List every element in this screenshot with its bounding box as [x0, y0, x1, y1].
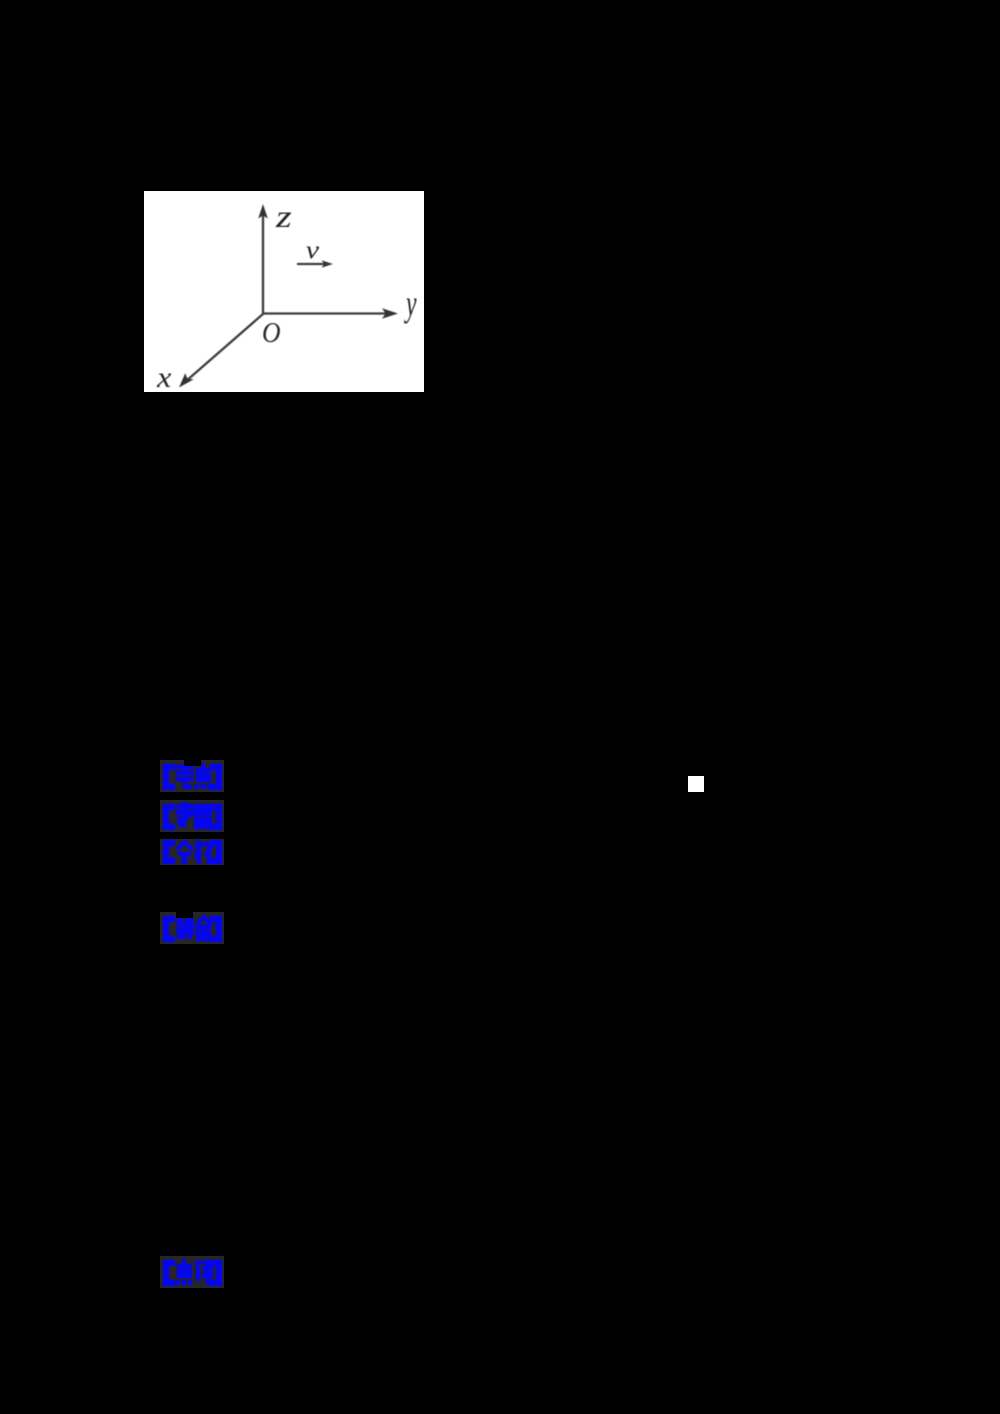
y axis line	[263, 312, 386, 314]
svg-text:x: x	[156, 360, 172, 392]
char dian	[195, 763, 210, 788]
x axis line	[185, 314, 263, 382]
figure: 3D coordinate axes diagram	[144, 191, 424, 392]
white square bullet	[688, 776, 704, 792]
char fen	[176, 840, 193, 863]
svg-text:z: z	[275, 199, 292, 234]
v vector line	[297, 263, 325, 265]
left bracket	[163, 764, 174, 789]
char da	[195, 915, 212, 940]
left bracket	[163, 804, 174, 829]
char zhuan	[176, 802, 193, 826]
label [jieda]	[160, 912, 224, 944]
x arrowhead	[179, 373, 194, 387]
z axis line	[262, 215, 264, 314]
right bracket	[210, 804, 221, 829]
left bracket	[163, 840, 174, 863]
right bracket	[210, 840, 221, 863]
char dian2	[176, 1259, 191, 1284]
char ping	[195, 1260, 212, 1284]
char ti	[194, 804, 211, 828]
svg-text:y: y	[404, 282, 417, 324]
char xi	[194, 840, 212, 863]
left bracket	[163, 1260, 174, 1285]
right bracket	[210, 764, 221, 789]
label [zhuanti]	[160, 800, 224, 832]
char kao	[176, 763, 193, 788]
y arrowhead	[382, 308, 398, 318]
right bracket	[210, 1260, 221, 1285]
svg-text:v: v	[306, 236, 320, 264]
left bracket	[163, 916, 174, 941]
char jie	[176, 915, 193, 938]
label [fenxi]	[160, 839, 224, 865]
svg-text:O: O	[262, 317, 281, 349]
right bracket	[210, 916, 221, 941]
label [dianping]	[160, 1256, 224, 1288]
label [kaodian]	[160, 760, 224, 792]
z arrowhead	[258, 204, 268, 219]
v arrowhead	[322, 260, 334, 268]
